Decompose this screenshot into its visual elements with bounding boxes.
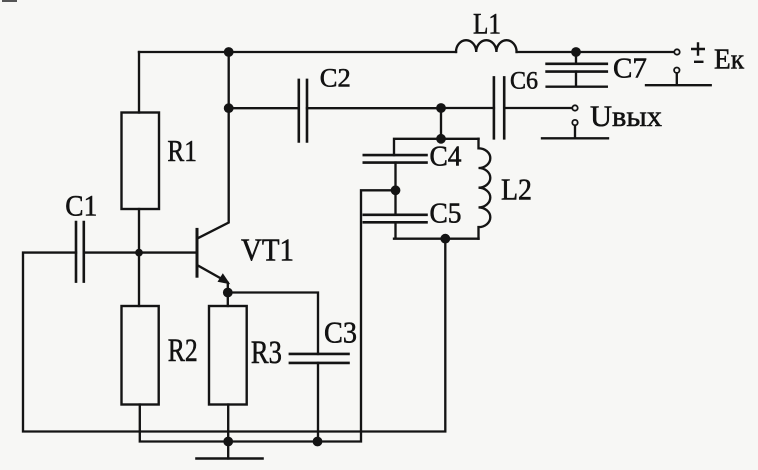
svg-text:C4: C4	[430, 142, 462, 173]
svg-text:VT1: VT1	[241, 232, 294, 268]
svg-text:R3: R3	[251, 335, 282, 371]
svg-text:C3: C3	[324, 315, 357, 350]
svg-text:Uвых: Uвых	[590, 100, 662, 133]
svg-text:C7: C7	[613, 53, 647, 85]
svg-text:C5: C5	[430, 199, 462, 230]
svg-text:Ек: Ек	[714, 44, 745, 76]
svg-text:C2: C2	[320, 64, 351, 93]
svg-text:L1: L1	[473, 8, 501, 41]
svg-text:L2: L2	[501, 172, 532, 207]
svg-text:R2: R2	[168, 333, 198, 369]
svg-text:R1: R1	[167, 133, 197, 168]
svg-text:C6: C6	[510, 68, 538, 95]
svg-text:C1: C1	[65, 190, 97, 223]
